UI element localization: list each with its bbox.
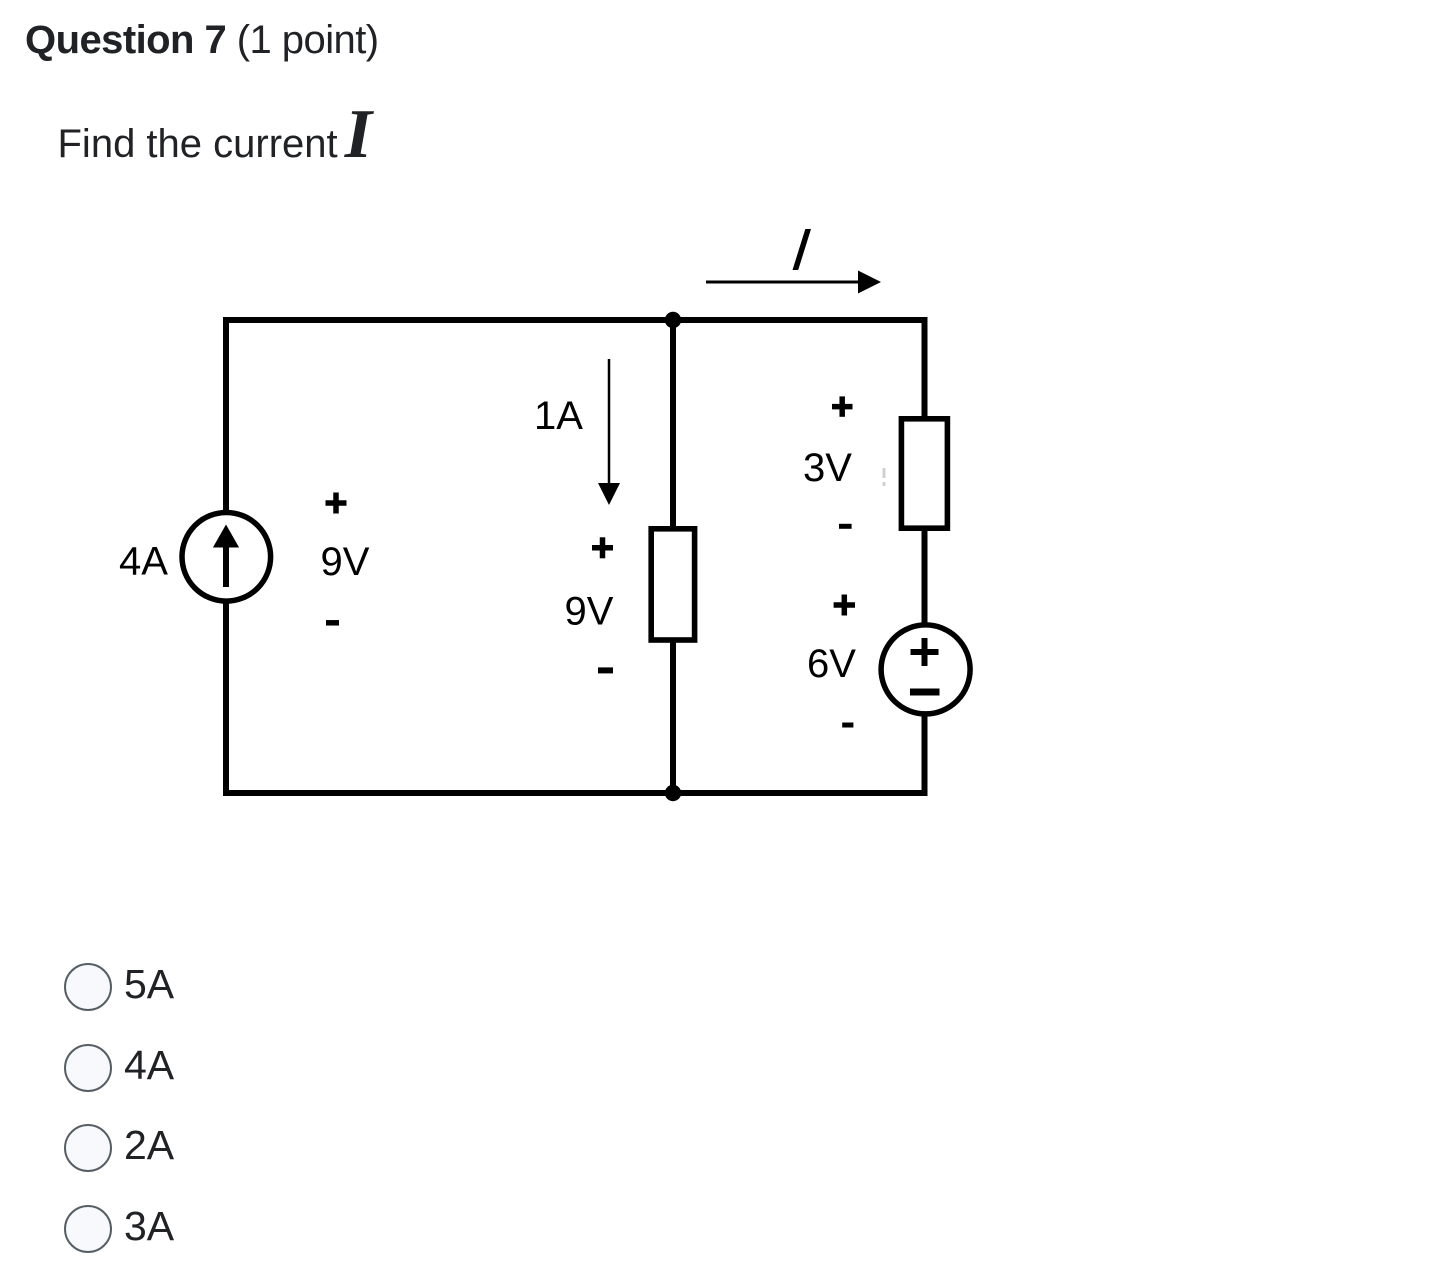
radio option 5A xyxy=(64,963,112,1011)
question heading xyxy=(25,16,379,64)
wire outer loop xyxy=(226,320,925,793)
prompt text xyxy=(58,111,373,168)
wire middle branch xyxy=(670,320,676,793)
svg-text:9V: 9V xyxy=(565,590,614,634)
resistor middle (9V) xyxy=(651,529,694,640)
resistor right (3V) xyxy=(901,419,947,528)
label - (middle polarity) xyxy=(598,667,613,673)
label - (right bottom polarity) xyxy=(842,723,853,728)
label + (right bottom polarity) xyxy=(834,595,855,616)
node bottom junction xyxy=(665,785,681,801)
label - (left polarity) xyxy=(326,620,339,626)
label + (left polarity) xyxy=(326,493,347,514)
label - (right top polarity) xyxy=(839,524,852,529)
svg-text:4A: 4A xyxy=(119,540,168,584)
arrow 1A (downward) xyxy=(598,359,620,505)
label 4A xyxy=(119,540,168,584)
node top junction xyxy=(665,312,681,328)
svg-text:3V: 3V xyxy=(803,446,852,490)
voltage source 6V (circle with plus minus) xyxy=(881,625,970,714)
current source 4A (circle with up arrow) xyxy=(182,513,271,602)
radio option 4A xyxy=(64,1044,112,1092)
radio option 3A xyxy=(64,1205,112,1253)
label + (middle polarity) xyxy=(592,537,613,558)
radio option 2A xyxy=(64,1124,112,1172)
label 3V xyxy=(803,446,852,490)
label 9V (left) xyxy=(321,540,370,584)
svg-text:9V: 9V xyxy=(321,540,370,584)
label 1A xyxy=(534,394,583,438)
arrow current I (rightward) xyxy=(706,271,881,294)
svg-text:6V: 6V xyxy=(807,642,856,686)
faint artifact mark xyxy=(883,468,886,486)
label 6V xyxy=(807,642,856,686)
svg-text:1A: 1A xyxy=(534,394,583,438)
label + (right top polarity) xyxy=(832,396,853,416)
label 9V (middle) xyxy=(565,590,614,634)
label I (italic current) xyxy=(793,229,812,270)
